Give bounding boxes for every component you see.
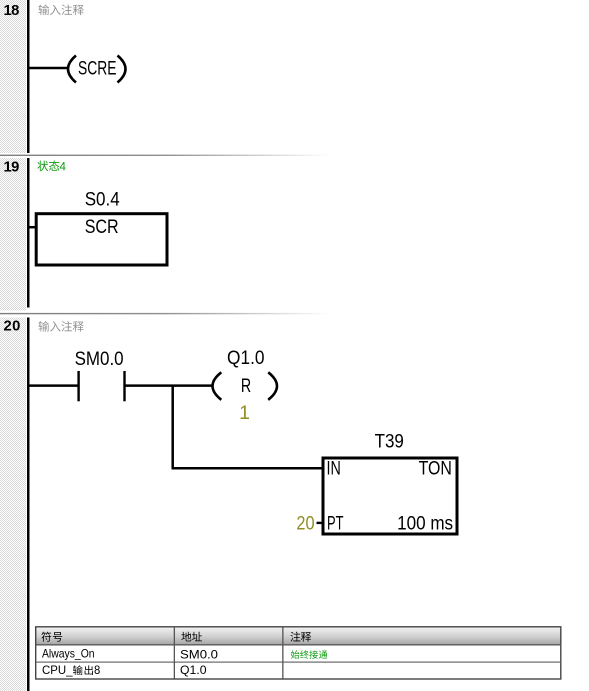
- table header 注释: [290, 632, 311, 642]
- contact SM0.0 left bar: [77, 371, 79, 401]
- network 18 margin bar: [0, 0, 26, 153]
- coil SCRE right parenthesis: [118, 56, 126, 83]
- svg-text:SM0.0: SM0.0: [180, 647, 218, 661]
- svg-text:CPU_: CPU_: [42, 663, 73, 677]
- wire rail to contact SM0.0: [29, 384, 79, 387]
- separator line after network 18: [0, 155, 589, 156]
- network 20 margin bar: [0, 318, 26, 691]
- svg-text:18: 18: [4, 3, 20, 19]
- symbol table row line: [36, 662, 561, 663]
- symbol table outer border: [36, 627, 561, 679]
- left power rail network 20: [27, 318, 30, 691]
- svg-text:IN: IN: [327, 458, 341, 480]
- coil R right parenthesis: [268, 372, 277, 400]
- svg-text:20: 20: [4, 319, 21, 335]
- left power rail network 19: [27, 158, 30, 308]
- svg-text:TON: TON: [419, 458, 452, 480]
- PT pin stub wire: [317, 522, 324, 524]
- network 19 margin bar: [0, 158, 26, 311]
- table row1 comment 始终接通: [291, 650, 327, 658]
- contact SM0.0 right bar: [123, 371, 125, 401]
- coil R left parenthesis: [213, 372, 222, 400]
- svg-text:SCR: SCR: [85, 216, 119, 238]
- network 19 title text: [37, 160, 59, 171]
- svg-text:S0.4: S0.4: [85, 189, 120, 211]
- symbol table header row background: [36, 627, 561, 645]
- symbol table column line 2: [282, 627, 283, 679]
- wire branch vertical: [171, 386, 174, 469]
- svg-text:Q1.0: Q1.0: [180, 663, 207, 677]
- svg-text:Always_On: Always_On: [42, 647, 95, 661]
- svg-text:SM0.0: SM0.0: [75, 348, 124, 370]
- left power rail network 18: [27, 0, 30, 153]
- timer box T39: [323, 458, 457, 534]
- svg-text:20: 20: [296, 513, 314, 535]
- table header 地址: [181, 632, 202, 642]
- svg-text:R: R: [241, 375, 251, 397]
- wire stub rail to SCR box: [29, 226, 37, 229]
- svg-text:Q1.0: Q1.0: [227, 347, 265, 369]
- separator line after network 19: [0, 313, 589, 314]
- table header 符号: [41, 632, 62, 642]
- svg-text:1: 1: [239, 402, 250, 424]
- svg-text:100 ms: 100 ms: [397, 513, 453, 535]
- svg-text:8: 8: [94, 663, 101, 677]
- svg-text:T39: T39: [375, 431, 404, 453]
- svg-text:PT: PT: [327, 513, 344, 535]
- wire contact SM0.0 to coil Q1.0: [125, 384, 213, 387]
- svg-text:SCRE: SCRE: [78, 58, 117, 80]
- network 20 comment text: [38, 321, 83, 332]
- wire rail to coil SCRE: [29, 67, 68, 70]
- network 18 comment text: [38, 4, 83, 15]
- coil SCRE left parenthesis: [68, 56, 76, 83]
- wire branch to timer T39 IN pin: [172, 467, 325, 470]
- svg-text:4: 4: [60, 162, 67, 174]
- svg-text:19: 19: [4, 159, 20, 175]
- SCR box S0.4: [36, 214, 167, 265]
- symbol table column line 1: [174, 627, 175, 679]
- symbol table header bottom line: [36, 644, 561, 645]
- table row2 symbol 输出: [73, 665, 93, 675]
